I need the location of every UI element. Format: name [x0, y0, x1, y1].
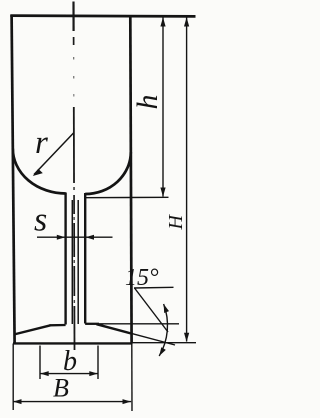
b dimension line — [40, 373, 98, 375]
svg-text:r: r — [35, 125, 48, 161]
H bottom arrow — [184, 333, 189, 342]
rim (top line of cup, extended right as extension line for h and H) — [10, 14, 195, 17]
r leader arrow — [33, 169, 43, 176]
b left arrow — [40, 371, 49, 376]
stem outer wall left — [64, 193, 66, 325]
left wall (outer wall of cup continuing to foot edge) — [12, 15, 15, 344]
foot left bevel (15 degree top surface) — [14, 325, 51, 334]
paper background — [0, 0, 199, 418]
svg-text:h: h — [131, 95, 164, 110]
arc top arrow — [164, 304, 169, 313]
B dimension line — [13, 401, 131, 403]
B left arrow — [13, 399, 22, 404]
right wall (outer wall of cup continuing to foot edge) — [130, 15, 131, 344]
h dimension extension line (bowl inner bottom level) — [85, 196, 169, 198]
svg-text:s: s — [34, 202, 47, 239]
foot bottom line — [13, 342, 132, 344]
h dimension line — [162, 18, 164, 197]
b extension line right — [97, 346, 99, 380]
b extension line left — [39, 346, 41, 380]
left extension line for B (below foot) — [12, 344, 14, 411]
angle dimension arc — [159, 304, 167, 356]
foot bottom extended right (extension line for H) — [132, 342, 196, 344]
H top arrow — [184, 17, 189, 26]
r leader line — [34, 133, 74, 175]
H dimension line — [186, 18, 188, 342]
svg-text:H: H — [165, 214, 187, 231]
15 degree label underline — [134, 286, 174, 289]
arc bottom arrow — [159, 347, 166, 356]
svg-text:B: B — [53, 374, 69, 403]
centerline (vertical axis, dash-dot) — [72, 2, 74, 32]
bore wall right — [77, 200, 79, 324]
foot top flat left of stem — [50, 324, 66, 327]
h bottom arrow — [160, 188, 165, 197]
stem outer wall right — [84, 193, 86, 324]
foot top flat right of stem + horizontal reference ray for angle — [85, 323, 179, 325]
b right arrow — [89, 371, 98, 376]
svg-text:b: b — [63, 346, 77, 377]
B right arrow — [123, 399, 132, 404]
h top arrow — [160, 17, 165, 26]
s left arrow — [57, 235, 66, 240]
15 degree leader line — [135, 288, 169, 332]
s dimension line (across stem) — [37, 236, 113, 238]
bore wall left — [71, 200, 73, 324]
s right arrow — [86, 235, 95, 240]
bowl bottom left arc (radius r) — [13, 149, 66, 194]
foot right bevel + its extension ray for the angle dimension — [97, 324, 176, 345]
right extension line for B (below foot) — [131, 344, 133, 412]
bowl bottom right arc (radius r) — [85, 152, 131, 194]
